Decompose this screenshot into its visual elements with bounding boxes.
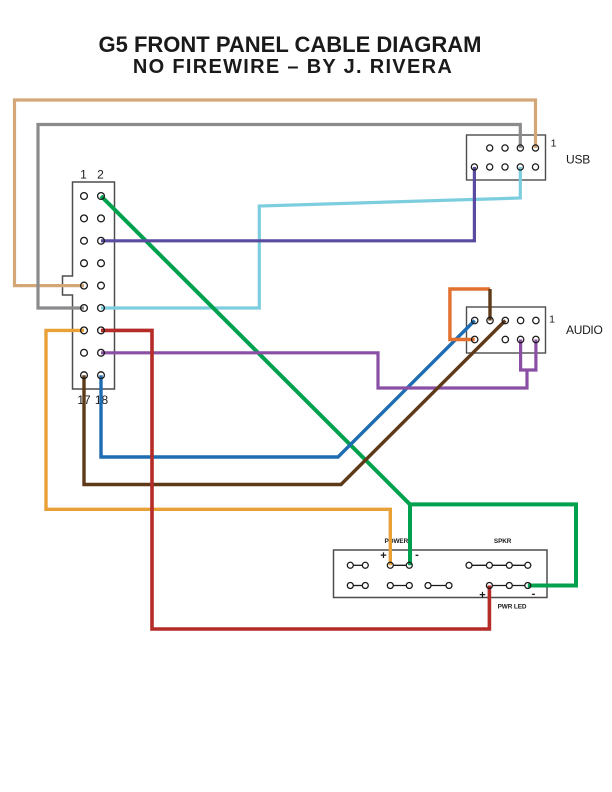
header J1 body [63, 182, 115, 389]
svg-text:-: - [415, 549, 419, 561]
wire purple: J1 pin16 to AUDIO bottom pins 4+5 [101, 353, 527, 388]
svg-text:1: 1 [549, 314, 555, 326]
svg-text:-: - [532, 588, 536, 600]
wire orange: AUDIO bottom pin1 loop [450, 289, 490, 340]
wire indigo: USB bottom pin1 to J1 pin6 [101, 167, 474, 241]
svg-text:PWR LED: PWR LED [498, 604, 527, 611]
svg-text:SPKR: SPKR [494, 538, 512, 545]
svg-text:AUDIO: AUDIO [566, 323, 603, 337]
wire green: J1 pin2 to J4 POWER - and PWR LED - [101, 196, 410, 565]
wire cyan: J1 pin12 to USB bottom pin4 [101, 167, 520, 308]
wire blue: J1 pin18 to AUDIO top pin1 [101, 321, 475, 458]
wire brown: J1 pin17 to AUDIO top pin3 [84, 321, 505, 485]
svg-text:1: 1 [80, 168, 87, 182]
USB header J2 body [467, 135, 546, 180]
USB pins [471, 145, 538, 170]
wire tan: J1 pin9 to USB pin4 top [15, 100, 536, 286]
wire amber: J1 pin13 to J4 POWER + [46, 330, 390, 565]
svg-text:+: + [380, 550, 386, 562]
svg-text:POWER: POWER [384, 538, 408, 545]
J1 pins [81, 193, 105, 379]
AUDIO pins [472, 317, 540, 342]
J4 pin rings [347, 562, 531, 588]
wire brown stub: loop end to AUDIO top pin2 [488, 289, 491, 321]
wire red: J1 pin14 to J4 PWR LED + [101, 330, 489, 629]
wire gray: J1 pin11 to USB pin3 top [38, 125, 520, 309]
J4 pin whiteouts [347, 562, 531, 588]
wire purple bracket [521, 340, 536, 371]
svg-text:G5 FRONT PANEL CABLE DIAGRAM: G5 FRONT PANEL CABLE DIAGRAM [99, 32, 482, 57]
svg-text:USB: USB [566, 153, 590, 167]
svg-text:2: 2 [97, 168, 104, 182]
svg-text:+: + [479, 590, 485, 602]
svg-text:1: 1 [551, 138, 557, 150]
front-panel header J4 body [334, 550, 548, 598]
svg-text:NO FIREWIRE – BY J. RIVERA: NO FIREWIRE – BY J. RIVERA [133, 56, 453, 78]
J4 pin-group link bars [350, 565, 528, 585]
AUDIO header J3 body [467, 307, 546, 353]
